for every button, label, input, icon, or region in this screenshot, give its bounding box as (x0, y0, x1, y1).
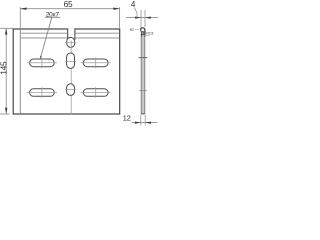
arrow bottom (5, 108, 7, 114)
slot A2 (bottom-left) (30, 89, 55, 97)
svg-text:12: 12 (123, 113, 131, 122)
slot B1 (top-right) (83, 59, 108, 67)
hem line lower (21, 37, 120, 39)
dim width 65: dimension line (20, 8, 119, 10)
slot B2 (bottom-right) (83, 89, 108, 97)
svg-text:65: 65 (64, 0, 73, 9)
dim width 65: extension lines (19, 7, 21, 29)
dim 12 line (132, 122, 158, 124)
dim height: dimension line (5, 28, 7, 114)
U-notch (68, 28, 75, 40)
svg-text:4: 4 (131, 0, 136, 9)
oval M3 (67, 84, 75, 96)
plate outline (13, 29, 120, 114)
arrow left (20, 8, 26, 10)
dim height 145: extension stubs (0, 27, 13, 29)
side view hook top (141, 28, 145, 37)
dim 4: extension lines up (140, 10, 142, 27)
side view strip fill (141, 31, 145, 114)
vertical centerline (70, 41, 72, 115)
side strip bottom cap (141, 113, 145, 115)
side view strip edges (140, 34, 142, 115)
slot A1 (top-left) (30, 59, 55, 67)
side view tick marks (139, 57, 148, 59)
svg-text:145: 145 (0, 61, 9, 75)
dim 4 line (126, 17, 158, 19)
svg-text:R2,5: R2,5 (146, 31, 153, 35)
oval M0 (below notch) (67, 37, 75, 47)
hem line upper (21, 32, 120, 34)
fold line left (19, 29, 21, 114)
oval M2 (67, 53, 75, 68)
arrow right (113, 8, 119, 10)
svg-text:R2: R2 (130, 28, 134, 32)
dim 12: extension lines down (140, 115, 142, 126)
arrow top (5, 28, 7, 34)
